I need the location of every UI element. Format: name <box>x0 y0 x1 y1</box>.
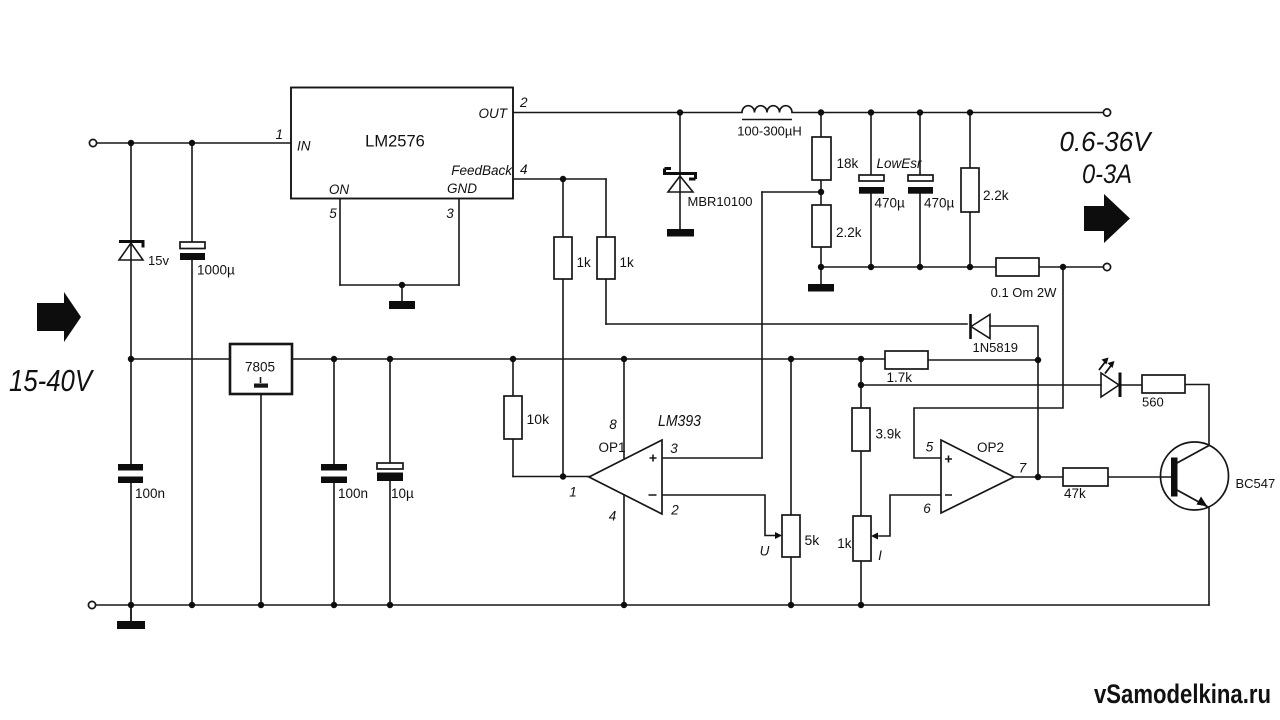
node minus-2.2k <box>818 264 824 270</box>
wire current sense to OP2+ <box>914 267 1063 458</box>
IC U2 7805 box <box>230 344 292 394</box>
svg-text:MBR10100: MBR10100 <box>688 194 753 209</box>
svg-text:2.2k: 2.2k <box>836 225 862 240</box>
node rail-10u <box>387 356 393 362</box>
wire 1k R1 bottom to OP1 out <box>562 279 564 477</box>
svg-text:LM393: LM393 <box>658 413 701 430</box>
svg-text:1: 1 <box>275 127 283 142</box>
wire OP2 pin6 to 1k wiper <box>879 495 941 536</box>
svg-text:IN: IN <box>297 139 311 154</box>
IC U1 LM2576 box <box>291 88 513 199</box>
svg-text:1k: 1k <box>837 536 852 551</box>
wire 1000u branch vertical <box>191 143 193 605</box>
node out-2.2k <box>967 109 973 115</box>
node OP1 out <box>560 473 566 479</box>
wire 1N5819 anode <box>990 326 1038 477</box>
node minus-470u1 <box>868 264 874 270</box>
wire 1k R2 bottom <box>605 279 607 324</box>
capacitor C6 470u <box>908 175 933 181</box>
svg-text:470µ: 470µ <box>875 196 906 211</box>
wire 10u branch <box>389 359 391 605</box>
svg-text:0.6-36V: 0.6-36V <box>1060 126 1153 157</box>
resistor R1 1k <box>554 237 572 279</box>
svg-text:GND: GND <box>447 181 477 196</box>
wire 470u C2 <box>919 113 921 268</box>
node out-MBR <box>677 109 683 115</box>
svg-text:1k: 1k <box>620 255 635 270</box>
wire OP1 pin3 <box>662 457 762 459</box>
svg-text:7: 7 <box>1019 461 1027 476</box>
svg-text:8: 8 <box>609 417 617 432</box>
potentiometer RP1 5k <box>782 515 800 557</box>
op-amp OP2 LM393 <box>941 440 1014 513</box>
wire 3.9k branch <box>860 359 862 605</box>
svg-text:OP1: OP1 <box>599 440 626 455</box>
node gnd-zener <box>128 602 134 608</box>
node 1.7k-1N5819 <box>1035 357 1041 363</box>
svg-text:1k: 1k <box>577 255 592 270</box>
svg-text:560: 560 <box>1142 395 1164 410</box>
svg-text:5: 5 <box>329 206 337 221</box>
svg-text:1.7k: 1.7k <box>887 370 913 385</box>
resistor R9 3.9k <box>852 408 870 451</box>
node OP2 out <box>1035 474 1041 480</box>
wire 5k pot bottom <box>790 557 792 605</box>
potentiometer RP2 1k <box>853 516 871 561</box>
svg-text:3.9k: 3.9k <box>876 427 902 442</box>
wire MBR10100 branch <box>679 113 681 230</box>
node minus-2.2kb <box>967 264 973 270</box>
resistor R2 1k <box>597 237 615 279</box>
svg-text:4: 4 <box>520 162 528 177</box>
capacitor C1 1000u <box>180 242 205 249</box>
node gnd-10u <box>387 602 393 608</box>
svg-text:100n: 100n <box>135 486 165 501</box>
diode VD2 MBR10100 <box>665 169 696 180</box>
resistor R3 18k <box>812 137 831 180</box>
node LM2576 gnd link <box>399 282 405 288</box>
arrow input <box>37 292 81 342</box>
node rail-5k <box>788 356 794 362</box>
wire divider sense vertical <box>761 192 763 458</box>
node gnd-1000u <box>189 602 195 608</box>
svg-text:4: 4 <box>609 509 617 524</box>
wire 5V rail right of 1.7k <box>928 359 1038 361</box>
wire 18k top <box>820 113 822 138</box>
transistor Q1 BC547 <box>1161 442 1229 510</box>
arrow output <box>1084 194 1130 243</box>
wire 2.2k bottom <box>820 247 822 284</box>
svg-text:I: I <box>878 548 882 563</box>
node gnd-7805 <box>258 602 264 608</box>
svg-text:0.1 Om 2W: 0.1 Om 2W <box>991 285 1057 300</box>
wire 7805 ground pin <box>260 394 262 605</box>
wire 10k branch <box>512 359 514 477</box>
wire output minus rail <box>821 266 1103 268</box>
node sense-out <box>1060 264 1066 270</box>
svg-text:1N5819: 1N5819 <box>973 340 1019 355</box>
svg-text:5: 5 <box>926 440 934 455</box>
svg-text:470µ: 470µ <box>924 196 955 211</box>
svg-text:47k: 47k <box>1064 486 1086 501</box>
wire 560 to collector <box>1185 385 1209 446</box>
wire node to 1N5819 <box>606 323 967 325</box>
node out-470u1 <box>868 109 874 115</box>
svg-text:3: 3 <box>446 206 454 221</box>
resistor R8 1.7k <box>885 351 928 369</box>
resistor R11 560 <box>1142 375 1185 393</box>
node out-18k <box>818 109 824 115</box>
terminal output minus <box>1103 263 1110 270</box>
svg-text:6: 6 <box>923 501 931 516</box>
node input-1000u <box>189 140 195 146</box>
wire 2.2k load branch <box>969 113 971 268</box>
svg-text:100-300µH: 100-300µH <box>737 124 802 139</box>
svg-text:vSamodelkina.ru: vSamodelkina.ru <box>1094 679 1271 709</box>
wire OP1 output <box>513 476 589 478</box>
wire 5V rail <box>292 358 885 360</box>
node minus-470u2 <box>917 264 923 270</box>
wire OP1 supply pins 8-4 <box>623 359 625 605</box>
wire OP2 output <box>1014 476 1063 478</box>
svg-text:OUT: OUT <box>479 106 509 121</box>
svg-text:OP2: OP2 <box>977 440 1004 455</box>
svg-text:2.2k: 2.2k <box>983 188 1009 203</box>
node rail-10k <box>510 356 516 362</box>
node LED tap <box>858 382 864 388</box>
svg-text:15v: 15v <box>148 253 169 268</box>
wire ON-GND link <box>340 285 459 301</box>
svg-text:LowEsr: LowEsr <box>877 156 923 171</box>
svg-text:5k: 5k <box>805 532 821 548</box>
svg-text:BC547: BC547 <box>1236 476 1276 491</box>
node gnd-5k <box>788 602 794 608</box>
terminal output plus <box>1103 109 1110 116</box>
wire LM2576 OUT rail <box>513 112 1103 114</box>
svg-text:ON: ON <box>329 182 350 197</box>
wire ground rail <box>96 605 1209 620</box>
wire 470u C1 <box>870 113 872 268</box>
node rail-100n <box>331 356 337 362</box>
node gnd-op1 <box>621 602 627 608</box>
wire LM2576 ON pin <box>339 198 341 285</box>
svg-text:7805: 7805 <box>245 360 275 375</box>
inductor L1 100-300uH <box>742 106 792 113</box>
LED HL1 <box>1101 373 1119 397</box>
capacitor C3 100n <box>321 464 347 471</box>
node rail-op1supply <box>621 356 627 362</box>
resistor R7 10k <box>504 396 522 439</box>
zener diode VD1 15v <box>119 242 143 248</box>
wire 7805 input <box>131 358 230 360</box>
svg-text:LM2576: LM2576 <box>365 133 425 151</box>
resistor R4 2.2k <box>812 205 831 247</box>
ground LM2576 <box>389 301 415 309</box>
wire emitter down <box>1208 507 1210 605</box>
resistor R10 47k <box>1063 468 1108 486</box>
op-amp OP1 LM393 <box>589 440 662 514</box>
node gnd-100n <box>331 602 337 608</box>
ground MBR10100 <box>667 229 694 237</box>
svg-text:U: U <box>760 544 770 559</box>
svg-text:18k: 18k <box>837 156 859 171</box>
wire 18k-2.2k mid <box>820 180 822 205</box>
node gnd-1kpot <box>858 602 864 608</box>
svg-text:0-3A: 0-3A <box>1082 159 1132 189</box>
wire 1k R2 top <box>605 179 607 237</box>
node 7805 in <box>128 356 134 362</box>
resistor R6 0.1 Om 2W <box>996 258 1039 276</box>
svg-text:2: 2 <box>670 503 679 518</box>
wire 5k pot top <box>790 359 792 515</box>
wire feedback <box>513 178 606 180</box>
wire OP1 pin2 to 5k wiper <box>662 495 776 536</box>
wire LED to 560 <box>1120 384 1142 386</box>
node input-zener <box>128 140 134 146</box>
node rail-3.9k <box>858 356 864 362</box>
terminal input <box>89 139 96 146</box>
ground divider <box>808 284 834 292</box>
svg-text:10µ: 10µ <box>391 486 414 501</box>
svg-text:1: 1 <box>569 485 577 500</box>
terminal ground input <box>88 601 95 608</box>
svg-text:2: 2 <box>519 95 528 110</box>
ground main <box>117 621 145 629</box>
wire divider link <box>762 191 821 193</box>
svg-text:10k: 10k <box>527 411 551 427</box>
ground glyph inside 7805 <box>260 377 262 383</box>
node out-470u2 <box>917 109 923 115</box>
wire input rail <box>97 142 291 144</box>
wire 100n C2 branch <box>333 359 335 605</box>
wire zener branch vertical <box>130 143 132 621</box>
svg-text:100n: 100n <box>338 486 368 501</box>
svg-text:1000µ: 1000µ <box>197 263 235 278</box>
capacitor C5 470u <box>859 175 884 181</box>
svg-text:3: 3 <box>670 441 678 456</box>
resistor R5 2.2k load <box>961 168 979 212</box>
wire LM2576 GND pin <box>458 198 460 285</box>
svg-text:FeedBack: FeedBack <box>451 163 513 178</box>
node feedback-1k <box>560 176 566 182</box>
wire 47k to base <box>1108 476 1171 478</box>
capacitor C4 10u <box>377 463 403 469</box>
node divider mid <box>818 189 824 195</box>
capacitor C2 100n <box>118 464 143 471</box>
diode VD3 1N5819 <box>969 314 972 339</box>
wire 1k R1 top <box>562 179 564 237</box>
wire LED anode <box>861 384 1101 386</box>
svg-text:15-40V: 15-40V <box>9 363 95 398</box>
